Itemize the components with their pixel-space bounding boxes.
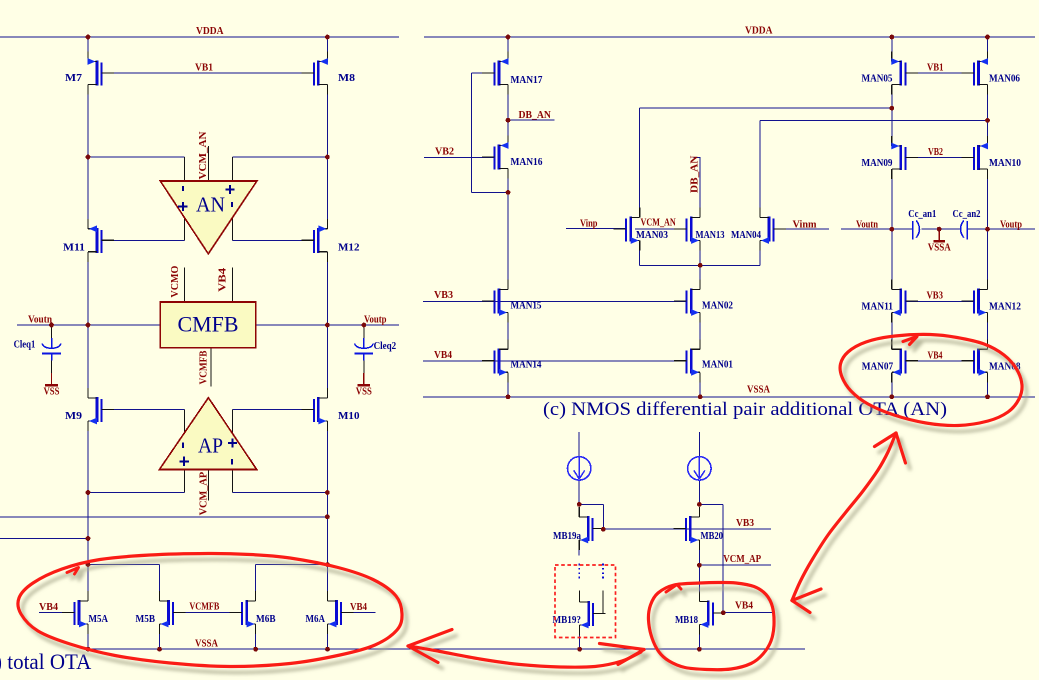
svg-text:MB18: MB18	[675, 615, 698, 626]
svg-text:CMFB: CMFB	[178, 312, 239, 337]
svg-text:VCMFB: VCMFB	[189, 602, 219, 613]
svg-text:Voutp: Voutp	[364, 315, 387, 326]
svg-text:AN: AN	[196, 193, 225, 217]
svg-text:VDDA: VDDA	[196, 26, 224, 37]
svg-text:VB4: VB4	[217, 267, 228, 292]
svg-text:M12: M12	[338, 243, 360, 254]
svg-text:MAN10: MAN10	[989, 158, 1021, 169]
svg-text:VSS: VSS	[356, 387, 372, 398]
svg-text:MAN06: MAN06	[989, 74, 1020, 85]
svg-text:VB4: VB4	[350, 602, 368, 613]
svg-text:AP: AP	[198, 434, 223, 458]
svg-text:M6B: M6B	[256, 614, 276, 625]
svg-text:Voutn: Voutn	[28, 315, 52, 326]
svg-text:VSSA: VSSA	[195, 639, 218, 650]
svg-text:MAN11: MAN11	[862, 302, 894, 313]
svg-text:Cc_an2: Cc_an2	[953, 209, 981, 220]
svg-text:M5A: M5A	[89, 614, 109, 625]
svg-text:VB2: VB2	[435, 147, 454, 158]
svg-text:MB19?: MB19?	[553, 615, 582, 626]
svg-text:VB1: VB1	[195, 63, 213, 74]
svg-text:Vinm: Vinm	[793, 219, 817, 230]
svg-text:MAN01: MAN01	[702, 360, 733, 371]
svg-text:MAN13: MAN13	[696, 230, 725, 241]
svg-text:MAN17: MAN17	[511, 75, 543, 86]
svg-text:M8: M8	[338, 73, 355, 84]
svg-text:VB4: VB4	[735, 601, 754, 612]
svg-text:MAN07: MAN07	[862, 362, 894, 373]
svg-text:MAN03: MAN03	[636, 230, 668, 241]
svg-text:VDDA: VDDA	[745, 26, 773, 37]
svg-text:Cleq2: Cleq2	[374, 341, 397, 352]
svg-text:) total OTA: ) total OTA	[0, 649, 91, 674]
svg-text:VB2: VB2	[928, 147, 943, 158]
svg-text:VSSA: VSSA	[928, 243, 951, 254]
svg-text:MAN15: MAN15	[511, 301, 542, 312]
svg-text:MAN02: MAN02	[702, 301, 733, 312]
svg-text:Vinp: Vinp	[580, 219, 598, 230]
svg-text:DB_AN: DB_AN	[519, 110, 552, 121]
svg-text:Cc_an1: Cc_an1	[908, 209, 936, 220]
svg-text:VB4: VB4	[39, 602, 59, 613]
svg-text:VB3: VB3	[434, 290, 453, 301]
svg-text:VCM_AN: VCM_AN	[641, 218, 677, 229]
svg-text:(c) NMOS differential pair add: (c) NMOS differential pair additional OT…	[543, 399, 947, 420]
svg-text:VCM_AP: VCM_AP	[723, 554, 761, 565]
svg-text:MAN04: MAN04	[731, 230, 762, 241]
svg-text:Cleq1: Cleq1	[14, 340, 36, 351]
svg-text:MAN16: MAN16	[511, 157, 543, 168]
svg-text:Voutp: Voutp	[1000, 220, 1022, 231]
svg-text:M6A: M6A	[306, 614, 326, 625]
svg-text:MAN12: MAN12	[989, 302, 1021, 313]
svg-text:M5B: M5B	[136, 614, 156, 625]
svg-text:MB20: MB20	[701, 531, 724, 542]
svg-text:M7: M7	[65, 73, 82, 84]
svg-text:M11: M11	[63, 243, 85, 254]
svg-text:VCM_AP: VCM_AP	[199, 471, 210, 515]
svg-text:VB3: VB3	[736, 518, 754, 529]
svg-text:MB19a: MB19a	[553, 531, 582, 542]
svg-text:DB_AN: DB_AN	[689, 155, 700, 193]
svg-text:Voutn: Voutn	[856, 220, 878, 231]
svg-text:VCMO: VCMO	[170, 266, 181, 298]
svg-text:MAN05: MAN05	[862, 74, 893, 85]
svg-text:VSSA: VSSA	[747, 385, 770, 396]
svg-text:VB1: VB1	[927, 63, 944, 74]
svg-text:VB4: VB4	[434, 350, 453, 361]
svg-text:VB3: VB3	[927, 291, 944, 302]
svg-text:MAN09: MAN09	[862, 158, 893, 169]
svg-text:VB4: VB4	[928, 351, 944, 362]
svg-text:MAN14: MAN14	[511, 360, 543, 371]
svg-text:M9: M9	[65, 411, 82, 422]
svg-text:VCM_AN: VCM_AN	[198, 131, 209, 179]
svg-text:VSS: VSS	[44, 387, 60, 398]
svg-text:M10: M10	[338, 411, 360, 422]
svg-text:VCMFB: VCMFB	[199, 351, 210, 385]
